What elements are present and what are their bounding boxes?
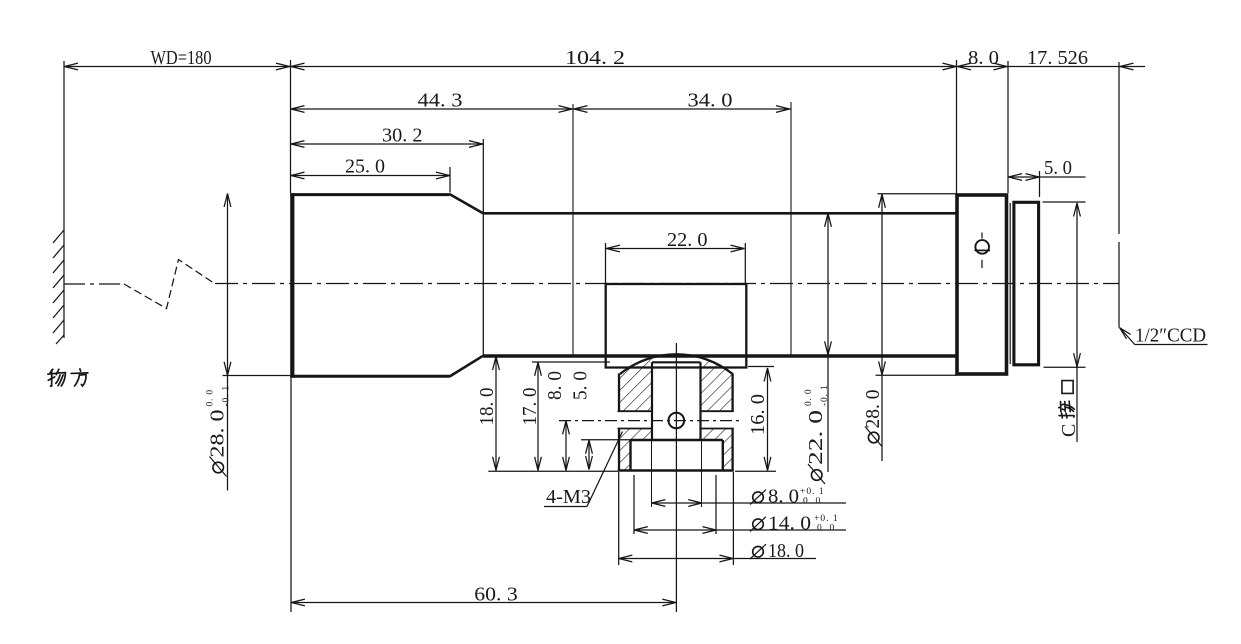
svg-text:14. 0: 14. 0 bbox=[768, 513, 811, 535]
set screw bbox=[975, 233, 991, 269]
bracket vertical center line bbox=[675, 343, 677, 612]
dimension 5.0 ring bbox=[1008, 171, 1086, 197]
svg-text:28. 0: 28. 0 bbox=[207, 410, 229, 458]
svg-text:1/2″CCD: 1/2″CCD bbox=[1135, 325, 1206, 347]
dimension 22.0 bbox=[606, 243, 746, 284]
dimension 5.0 bracket bbox=[581, 440, 631, 470]
svg-text:8. 0: 8. 0 bbox=[768, 486, 799, 508]
svg-text:8. 0: 8. 0 bbox=[968, 47, 999, 69]
bracket bottom edge bbox=[618, 469, 734, 472]
bracket flange bbox=[631, 440, 723, 471]
C 接口 label bbox=[1058, 381, 1080, 437]
extension line block left top bbox=[956, 60, 958, 194]
svg-text:0. 0: 0. 0 bbox=[817, 524, 835, 534]
under-bracket baseline bbox=[488, 470, 776, 472]
svg-text:0. 0: 0. 0 bbox=[803, 497, 821, 507]
svg-text:104. 2: 104. 2 bbox=[565, 47, 625, 69]
svg-text:60. 3: 60. 3 bbox=[474, 584, 518, 606]
dimension D22 bbox=[825, 213, 832, 472]
extension lines below bracket bbox=[619, 472, 734, 565]
dimension WD=180 bbox=[64, 63, 290, 70]
dimension D14.0 bbox=[634, 527, 846, 534]
dimension 8.0 top bbox=[957, 63, 1009, 70]
bracket slot left bbox=[618, 411, 653, 428]
object plane wall bbox=[53, 61, 64, 344]
dimension 18.0 bracket bbox=[493, 357, 500, 471]
dimension 17.526 bbox=[1008, 63, 1145, 70]
svg-text:-0. 1: -0. 1 bbox=[820, 385, 830, 406]
extension line image plane bbox=[1118, 62, 1120, 328]
svg-text:22. 0: 22. 0 bbox=[805, 410, 827, 465]
bracket seat arc bbox=[620, 354, 733, 374]
svg-text:44. 3: 44. 3 bbox=[418, 90, 463, 112]
tube joint line at 44.3 bbox=[572, 104, 574, 355]
dimension D18.0 bbox=[619, 555, 817, 562]
tube joint line at 34.0 bbox=[790, 102, 792, 355]
svg-text:5. 0: 5. 0 bbox=[1044, 157, 1072, 179]
svg-text:+0. 1: +0. 1 bbox=[800, 487, 825, 497]
dimension C mount bbox=[1043, 202, 1086, 442]
svg-text:17. 0: 17. 0 bbox=[519, 388, 541, 426]
dimension D28 right bbox=[876, 194, 957, 461]
dimension D28 left bbox=[223, 194, 291, 491]
svg-text:8. 0: 8. 0 bbox=[544, 371, 566, 400]
spacer line between block and ring bbox=[1009, 203, 1011, 364]
optical axis center line bbox=[64, 283, 1119, 286]
dimension 16.0 bbox=[748, 367, 774, 471]
bracket cross hole bbox=[669, 413, 685, 429]
bracket seat chord bbox=[652, 361, 701, 363]
extension line block right top bbox=[1007, 61, 1009, 193]
dimension 60.3 bbox=[291, 378, 676, 612]
bracket bore lines in flange bbox=[652, 441, 702, 507]
svg-text:C: C bbox=[1058, 424, 1080, 437]
dimension 8.0 bracket bbox=[563, 421, 570, 471]
svg-text:30. 2: 30. 2 bbox=[382, 125, 423, 147]
dimension 30.2 bbox=[290, 139, 483, 213]
bracket hole center line bbox=[559, 420, 740, 422]
dimension 34.0 bbox=[573, 106, 791, 113]
svg-text:4-M3: 4-M3 bbox=[546, 486, 591, 508]
bracket bore column left bbox=[651, 362, 653, 440]
extension line front face top bbox=[290, 60, 292, 193]
main tube bottom edge bbox=[483, 354, 957, 358]
svg-text:WD=180: WD=180 bbox=[151, 47, 212, 69]
svg-text:+0. 1: +0. 1 bbox=[814, 514, 839, 524]
svg-text:0. 0: 0. 0 bbox=[206, 389, 216, 406]
svg-text:0. 0: 0. 0 bbox=[804, 389, 814, 406]
break symbol zigzag bbox=[124, 260, 215, 309]
svg-text:5. 0: 5. 0 bbox=[570, 371, 592, 400]
物方 label bbox=[48, 369, 88, 386]
svg-text:25. 0: 25. 0 bbox=[345, 156, 385, 178]
svg-text:18. 0: 18. 0 bbox=[768, 540, 804, 562]
svg-text:28. 0: 28. 0 bbox=[862, 390, 884, 429]
4-M3 leader bbox=[587, 432, 623, 507]
mount block bbox=[957, 195, 1007, 374]
svg-text:34. 0: 34. 0 bbox=[688, 90, 733, 112]
svg-text:18. 0: 18. 0 bbox=[476, 388, 498, 426]
bracket slot right bbox=[701, 411, 734, 428]
bracket outer wall right bbox=[731, 374, 733, 471]
barrel-tube joint bbox=[482, 213, 484, 355]
svg-text:22. 0: 22. 0 bbox=[667, 229, 708, 251]
svg-text:16. 0: 16. 0 bbox=[747, 394, 769, 435]
dimension 17.0 bracket bbox=[532, 362, 610, 470]
dimension D8.0 bbox=[652, 500, 846, 507]
bracket outer wall left bbox=[618, 374, 620, 471]
dimension 104.2 bbox=[290, 63, 957, 70]
C-mount ring bbox=[1014, 202, 1039, 364]
main tube top edge bbox=[483, 212, 957, 215]
dimension 25.0 bbox=[290, 167, 450, 193]
bracket hatching bbox=[619, 358, 733, 471]
front barrel bbox=[290, 193, 483, 378]
svg-text:-0. 1: -0. 1 bbox=[222, 385, 232, 406]
CCD leader bbox=[1120, 328, 1208, 345]
svg-text:17. 526: 17. 526 bbox=[1027, 47, 1088, 69]
bracket bore column right bbox=[699, 362, 701, 440]
focus section box bbox=[606, 284, 747, 368]
dimension 44.3 bbox=[290, 106, 588, 113]
